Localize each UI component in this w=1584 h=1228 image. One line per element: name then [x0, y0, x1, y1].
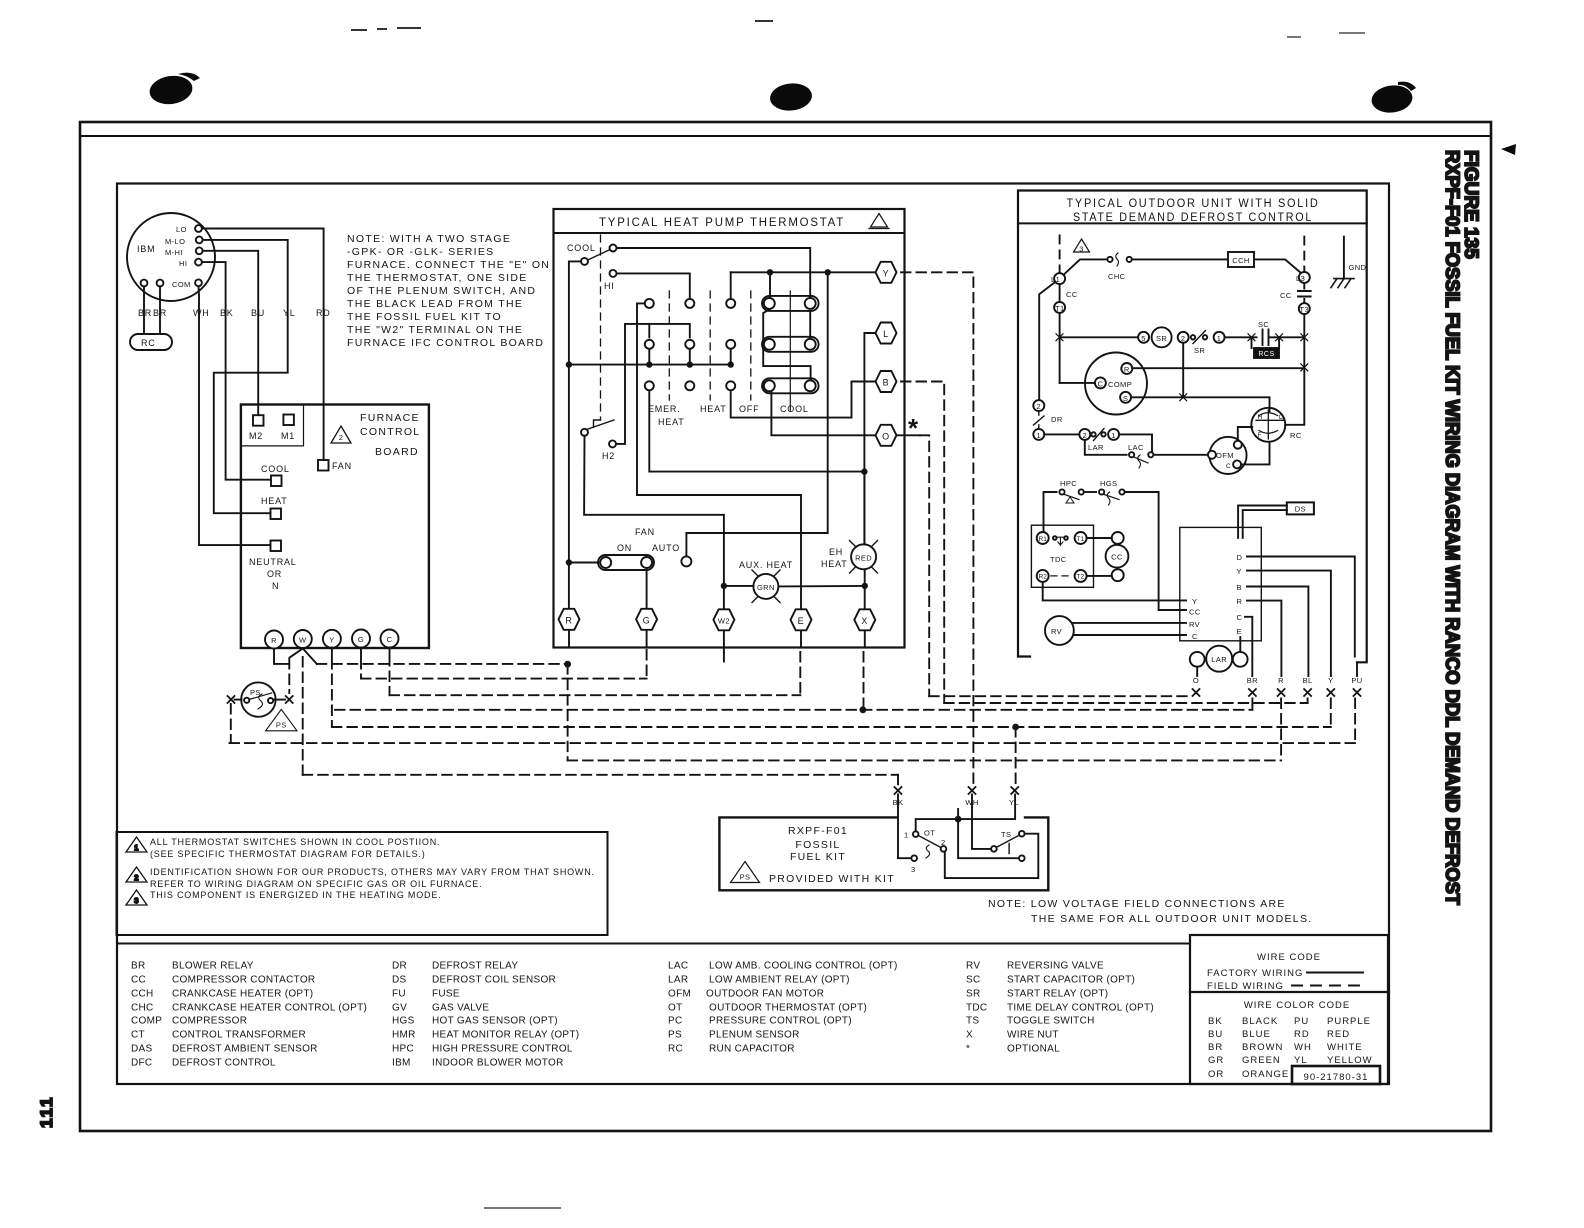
svg-text:BR: BR — [153, 308, 167, 318]
wire YL drop — [1015, 727, 1017, 785]
wire nut X YL — [1011, 787, 1018, 794]
wire rail to fan oval — [569, 562, 600, 564]
wire B hex exit — [901, 382, 944, 704]
switch TS arm — [997, 835, 1020, 847]
svg-text:1: 1 — [1217, 334, 1222, 343]
svg-text:2: 2 — [134, 873, 139, 882]
svg-text:GND: GND — [1349, 263, 1367, 272]
wire E hex drop — [799, 652, 801, 695]
wire nut X R — [1278, 689, 1285, 696]
svg-text:FIELD WIRING: FIELD WIRING — [1207, 981, 1284, 992]
wire B to blue — [1247, 587, 1308, 677]
svg-text:DEFROST COIL SENSOR: DEFROST COIL SENSOR — [432, 975, 556, 986]
svg-text:RCS: RCS — [1258, 351, 1274, 358]
svg-text:CC: CC — [1189, 608, 1201, 617]
svg-text:L3: L3 — [1296, 274, 1305, 283]
wire LAC branch — [1085, 440, 1127, 455]
wire row O — [929, 695, 1191, 697]
wire COOL to left rail — [569, 261, 581, 364]
junction dot L riser — [861, 468, 867, 474]
contact HI — [610, 270, 617, 277]
junction x S line — [1180, 394, 1187, 401]
junction x T3 main — [1301, 334, 1308, 341]
svg-text:HEAT: HEAT — [261, 496, 288, 506]
wire PS left stub — [235, 699, 242, 701]
wire W branch to PS — [288, 659, 290, 693]
lamp RED eh heat — [850, 541, 878, 574]
mode link dashed 2 — [709, 291, 711, 400]
svg-text:COOL: COOL — [261, 464, 290, 474]
svg-text:COMPRESSOR CONTACTOR: COMPRESSOR CONTACTOR — [172, 975, 315, 986]
svg-text:THIS COMPONENT IS ENERGIZED IN: THIS COMPONENT IS ENERGIZED IN THE HEATI… — [150, 890, 441, 900]
wire L hex to riser — [864, 333, 875, 544]
junction dot w2 grn — [721, 583, 727, 589]
wire LAR to OFM — [1119, 434, 1152, 454]
svg-text:C: C — [1279, 414, 1284, 421]
junction x SC right — [1276, 334, 1283, 341]
thermostat title bar — [554, 232, 905, 234]
svg-text:2: 2 — [1181, 334, 1186, 343]
svg-text:IDENTIFICATION SHOWN FOR OUR P: IDENTIFICATION SHOWN FOR OUR PRODUCTS, O… — [150, 867, 595, 877]
svg-text:PS: PS — [668, 1030, 682, 1041]
svg-text:SR: SR — [966, 989, 981, 1000]
wire O hex exit — [920, 435, 929, 696]
hexagon W2 — [713, 609, 734, 630]
wire row B G — [361, 678, 647, 680]
svg-text:Y: Y — [1328, 676, 1333, 685]
field power dashed L1 — [1059, 235, 1061, 272]
svg-text:WIRE NUT: WIRE NUT — [1007, 1030, 1059, 1041]
wire C board stub — [389, 648, 391, 696]
svg-text:YL: YL — [1009, 798, 1019, 807]
slider oval row3 — [762, 378, 819, 393]
svg-text:BL: BL — [1303, 676, 1313, 685]
run capacitor RC outdoor — [1251, 408, 1285, 442]
wire M-HI to BU drop — [203, 251, 259, 415]
note triangle 3 — [126, 890, 147, 905]
terminal COOL — [271, 476, 282, 487]
svg-text:HI: HI — [604, 281, 615, 291]
svg-text:HEAT: HEAT — [658, 417, 685, 427]
terminal DR 1 — [1033, 429, 1044, 440]
note triangle 1 — [126, 837, 147, 852]
svg-text:OFM: OFM — [668, 989, 691, 1000]
OT spring — [926, 845, 930, 858]
wire LO to RD drop — [202, 229, 324, 461]
svg-text:SR: SR — [1194, 346, 1205, 355]
svg-text:THE BLACK LEAD FROM THE: THE BLACK LEAD FROM THE — [347, 298, 523, 310]
svg-text:WIRE COLOR CODE: WIRE COLOR CODE — [1244, 1000, 1350, 1011]
wire PS left drop — [230, 704, 232, 743]
reversing valve RV — [1045, 616, 1074, 645]
node Y-line — [731, 271, 876, 273]
mechanical link dashed H1 — [600, 235, 602, 420]
contact heat row2 — [685, 340, 694, 349]
svg-text:1: 1 — [904, 831, 909, 840]
terminal 1 — [1214, 332, 1225, 343]
svg-text:FIGURE 135: FIGURE 135 — [1460, 150, 1481, 259]
svg-text:START CAPACITOR (OPT): START CAPACITOR (OPT) — [1007, 975, 1135, 986]
junction dot row A — [564, 661, 571, 668]
wire R board corner — [274, 649, 283, 664]
hexagon O — [876, 425, 897, 446]
IBM terminal LO — [195, 225, 202, 232]
svg-text:E: E — [1237, 627, 1242, 636]
svg-text:T2: T2 — [1077, 574, 1085, 581]
contact TS pivot — [991, 846, 997, 852]
wire red lamp riser — [863, 472, 865, 609]
svg-text:REFER TO WIRING DIAGRAM ON SPE: REFER TO WIRING DIAGRAM ON SPECIFIC GAS … — [150, 879, 482, 889]
terminal NEUTRAL — [271, 541, 282, 552]
wire BR nut drop — [1251, 699, 1253, 710]
wire PS right stub — [274, 699, 286, 701]
wire OT pin1 to YL — [916, 795, 1015, 832]
terminal L1 — [1054, 273, 1065, 284]
svg-text:CHC: CHC — [131, 1003, 154, 1014]
svg-text:2: 2 — [339, 433, 344, 442]
svg-text:OFF: OFF — [739, 404, 759, 414]
svg-text:RED: RED — [1327, 1029, 1350, 1040]
wire Y nut drop — [1330, 699, 1332, 728]
svg-text:COMPRESSOR: COMPRESSOR — [172, 1016, 247, 1027]
svg-text:LOW AMBIENT RELAY (OPT): LOW AMBIENT RELAY (OPT) — [709, 975, 850, 986]
switch OT arm — [918, 836, 941, 848]
wire W split left branch — [290, 649, 303, 658]
COOL moving contact — [581, 258, 588, 265]
svg-text:TYPICAL HEAT PUMP THERMOSTAT: TYPICAL HEAT PUMP THERMOSTAT — [599, 217, 845, 229]
terminal G — [352, 630, 370, 648]
legend column 3 — [668, 961, 898, 1055]
svg-text:CHC: CHC — [1108, 272, 1126, 281]
svg-text:GR: GR — [1208, 1055, 1224, 1066]
hexagon B — [876, 371, 897, 392]
svg-text:CC: CC — [1066, 290, 1078, 299]
svg-text:T3: T3 — [1300, 305, 1310, 314]
svg-text:DR: DR — [1051, 415, 1063, 424]
svg-text:R: R — [271, 636, 277, 645]
wire RV to board RV — [1073, 622, 1186, 624]
svg-text:R: R — [1278, 676, 1284, 685]
svg-text:CCH: CCH — [1232, 256, 1249, 265]
contact OT pin 1 — [913, 831, 919, 837]
svg-text:EH: EH — [829, 547, 843, 557]
svg-text:LAC: LAC — [668, 961, 688, 972]
TS toggle tick — [1008, 844, 1010, 854]
wire row R — [568, 759, 1282, 761]
hexagon E — [791, 609, 812, 630]
svg-text:(SEE SPECIFIC THERMOSTAT DIAGR: (SEE SPECIFIC THERMOSTAT DIAGRAM FOR DET… — [150, 849, 426, 859]
left rail lower — [568, 365, 570, 609]
wire LAC to OFM — [1153, 454, 1207, 456]
svg-text:B: B — [883, 378, 890, 388]
wire nut X at PS left — [228, 696, 235, 703]
svg-text:90-21780-31: 90-21780-31 — [1304, 1072, 1369, 1083]
contact SR — [1191, 335, 1195, 339]
svg-text:*: * — [908, 413, 919, 443]
svg-text:RUN CAPACITOR: RUN CAPACITOR — [709, 1044, 795, 1055]
svg-text:TS: TS — [966, 1016, 979, 1027]
svg-text:C: C — [1097, 379, 1103, 388]
svg-text:PU: PU — [1294, 1016, 1309, 1027]
wire LAR to O — [1196, 667, 1198, 676]
IBM terminal M-LO — [196, 237, 203, 244]
wire emer row3 to L node — [649, 390, 864, 471]
terminal HEAT — [271, 509, 282, 520]
stub off row2 bottom — [730, 349, 732, 365]
thermostat box — [554, 209, 905, 648]
svg-text:COM: COM — [172, 280, 191, 289]
svg-text:SC: SC — [966, 975, 981, 986]
junction dot rail/bus — [566, 361, 572, 367]
contact DR — [1034, 411, 1045, 429]
wire BR2 to RC — [159, 286, 161, 334]
svg-text:D: D — [1237, 553, 1243, 562]
svg-text:W2: W2 — [718, 616, 730, 625]
svg-text:NEUTRAL: NEUTRAL — [249, 557, 297, 567]
wire row D — [335, 709, 1252, 711]
contact CHC — [1107, 257, 1112, 262]
svg-text:HMR: HMR — [392, 1030, 416, 1041]
svg-text:HEAT MONITOR RELAY (OPT): HEAT MONITOR RELAY (OPT) — [432, 1030, 579, 1041]
svg-text:Y: Y — [1237, 567, 1242, 576]
svg-text:WH: WH — [1294, 1042, 1312, 1053]
svg-text:BU: BU — [1208, 1029, 1223, 1040]
svg-text:G: G — [643, 615, 651, 625]
wire TS to OT pin2 loop — [945, 834, 1039, 878]
svg-text:R2: R2 — [1039, 574, 1048, 581]
wire RV to board C — [1074, 634, 1186, 636]
hole punch top-left — [148, 73, 200, 107]
svg-text:RC: RC — [668, 1044, 683, 1055]
legend column 2 — [392, 961, 579, 1069]
svg-text:LAR: LAR — [668, 975, 688, 986]
svg-text:BOARD: BOARD — [375, 446, 419, 458]
H2 fixed contact — [609, 440, 616, 447]
figure title arrow — [1501, 144, 1516, 155]
svg-text:HPC: HPC — [1060, 479, 1077, 488]
svg-text:GV: GV — [392, 1003, 407, 1014]
crankcase heater CCH — [1228, 252, 1254, 267]
inner page frame line — [82, 135, 1489, 137]
svg-text:CC: CC — [1111, 553, 1123, 562]
mode link dashed 3 — [750, 291, 752, 400]
wire C to brown — [1245, 617, 1252, 676]
wire grn line — [724, 585, 865, 588]
switch H2 — [581, 429, 588, 436]
start capacitor SC — [1263, 330, 1275, 346]
legend column 4 — [966, 961, 1154, 1055]
wire CCH to L3 — [1254, 259, 1301, 273]
svg-text:N: N — [272, 581, 279, 591]
svg-text:1: 1 — [1037, 431, 1042, 440]
part number box 90-21780-31 — [1292, 1066, 1380, 1084]
svg-text:SC: SC — [1258, 320, 1269, 329]
wire dot stub up — [957, 809, 959, 819]
svg-text:H: H — [1258, 414, 1263, 421]
wire W2 riser from H2 pivot — [584, 436, 724, 609]
field wiring dashed buses — [230, 272, 1356, 786]
svg-text:ON: ON — [617, 543, 632, 553]
thermostat note triangle 1 — [871, 214, 888, 228]
IBM terminal BR1 — [141, 280, 148, 287]
contact emer row3 — [645, 381, 654, 390]
svg-text:B: B — [1237, 583, 1242, 592]
IBM terminal COM — [195, 279, 202, 286]
wire W riser — [302, 657, 304, 775]
svg-text:M-HI: M-HI — [165, 248, 183, 257]
svg-text:YELLOW: YELLOW — [1327, 1055, 1373, 1066]
svg-text:T1: T1 — [1077, 536, 1085, 543]
svg-text:RD: RD — [1294, 1029, 1310, 1040]
svg-text:3: 3 — [911, 865, 916, 874]
notes box — [117, 832, 608, 935]
wire nut X PU — [1354, 689, 1361, 696]
factory wiring sample line — [1307, 972, 1363, 974]
svg-text:WHITE: WHITE — [1327, 1042, 1363, 1053]
mode link dashed 1 — [668, 291, 670, 400]
wire R2 to board Y — [1043, 582, 1186, 601]
junction x T1 — [1056, 334, 1063, 341]
svg-text:LOW AMB. COOLING CONTROL (OPT): LOW AMB. COOLING CONTROL (OPT) — [709, 961, 898, 972]
note: low voltage field connections — [988, 898, 1312, 925]
wire nut X BL — [1304, 689, 1311, 696]
low ambient relay LAR outdoor — [1190, 646, 1248, 672]
svg-text:O: O — [1193, 676, 1199, 685]
junction dot x grn — [862, 583, 868, 589]
junction dot row Y YL — [1012, 724, 1019, 731]
svg-text:FAN: FAN — [332, 461, 352, 471]
furnace board M-terminal sub-panel — [241, 405, 304, 446]
svg-text:FOSSIL: FOSSIL — [795, 839, 840, 851]
svg-text:X: X — [966, 1030, 973, 1041]
contact emer row2 — [645, 340, 654, 349]
svg-text:CONTROL TRANSFORMER: CONTROL TRANSFORMER — [172, 1030, 306, 1041]
svg-text:OPTIONAL: OPTIONAL — [1007, 1044, 1060, 1055]
wire emer row1 to E riser — [637, 303, 801, 608]
terminal M1 — [283, 415, 294, 426]
svg-text:BR: BR — [131, 961, 146, 972]
contact TS lower — [1019, 855, 1025, 861]
outdoor fan motor OFM — [1208, 437, 1247, 474]
contact TS fixed — [1019, 831, 1025, 837]
contact LAR — [1091, 432, 1095, 436]
wire D to PU — [1247, 557, 1355, 657]
terminal T3 — [1299, 303, 1310, 314]
svg-text:HI: HI — [179, 259, 187, 268]
junction dot kit — [955, 816, 962, 823]
contact off row1 — [726, 299, 735, 308]
slider oval row2 — [762, 337, 819, 352]
wire HPC to HGS — [1084, 491, 1096, 493]
wire Y to yellow — [1247, 571, 1331, 676]
wire Y hex exit — [901, 272, 973, 786]
svg-text:2: 2 — [941, 838, 946, 847]
svg-text:GREEN: GREEN — [1242, 1055, 1281, 1066]
wire oval jog to oval3 right — [763, 309, 810, 380]
wire fan oval to G — [646, 570, 648, 609]
note triangle PS provided — [266, 709, 297, 730]
svg-text:CONTROL: CONTROL — [360, 426, 420, 438]
low ambient relay LAR terminal 1 — [1108, 429, 1119, 440]
svg-text:YL: YL — [283, 308, 296, 318]
svg-text:BK: BK — [220, 308, 234, 318]
stub emer row2 top — [648, 324, 650, 338]
outdoor unit box — [1018, 191, 1367, 663]
svg-text:DR: DR — [392, 961, 407, 972]
fan slider oval — [598, 555, 654, 570]
wire oval1 chain — [809, 311, 811, 338]
contact LAC — [1129, 452, 1134, 457]
svg-text:CT: CT — [131, 1030, 145, 1041]
svg-text:BLOWER RELAY: BLOWER RELAY — [172, 961, 254, 972]
svg-text:ALL THERMOSTAT SWITCHES SHOWN: ALL THERMOSTAT SWITCHES SHOWN IN COOL PO… — [150, 837, 440, 847]
run capacitor RC — [130, 334, 172, 350]
IBM terminal BR2 — [157, 280, 164, 287]
wire nut X BK — [895, 787, 902, 794]
wire Y board drop — [331, 648, 333, 728]
wire R hex drop — [567, 664, 569, 760]
stub OFF row1 — [730, 272, 732, 299]
scan marks top — [352, 21, 1364, 1208]
contact fan auto — [681, 556, 691, 566]
wire 2 to S line — [1182, 343, 1184, 398]
svg-text:3: 3 — [1079, 245, 1084, 254]
svg-text:TDC: TDC — [1050, 555, 1067, 564]
svg-text:DS: DS — [1295, 505, 1306, 514]
svg-text:M-LO: M-LO — [165, 237, 185, 246]
junction dot bus heat — [687, 361, 693, 367]
wire COMP C to T1 riser — [1060, 382, 1095, 384]
svg-text:PC: PC — [668, 1016, 683, 1027]
hexagon R — [559, 609, 580, 630]
svg-text:PS: PS — [276, 721, 287, 730]
svg-text:BLUE: BLUE — [1242, 1029, 1271, 1040]
svg-text:HPC: HPC — [392, 1044, 414, 1055]
contact OT pin 2 — [941, 846, 947, 852]
svg-text:TYPICAL OUTDOOR UNIT WITH SOLI: TYPICAL OUTDOOR UNIT WITH SOLID — [1067, 198, 1320, 210]
svg-text:PU: PU — [1351, 676, 1362, 685]
svg-text:START RELAY (OPT): START RELAY (OPT) — [1007, 989, 1108, 1000]
hexagon bottom stubs — [569, 630, 865, 652]
svg-text:BLACK: BLACK — [1242, 1016, 1278, 1027]
wire CHC to CCH — [1132, 258, 1228, 260]
IBM terminal M-HI — [196, 247, 203, 254]
junction dot Y/oval1 — [767, 269, 773, 275]
note triangle PS kit — [731, 862, 760, 883]
svg-text:NOTE: LOW VOLTAGE FIELD CONNEC: NOTE: LOW VOLTAGE FIELD CONNECTIONS ARE — [988, 898, 1286, 910]
svg-text:BR: BR — [138, 308, 152, 318]
svg-text:OF THE PLENUM SWITCH, AND: OF THE PLENUM SWITCH, AND — [347, 285, 536, 297]
svg-text:COMP: COMP — [1108, 380, 1132, 389]
svg-text:FUEL KIT: FUEL KIT — [790, 851, 846, 863]
wire nut X WH — [969, 787, 976, 794]
svg-text:PURPLE: PURPLE — [1327, 1016, 1371, 1027]
junction dot Y/auto — [825, 269, 831, 275]
svg-text:RXPF-F01: RXPF-F01 — [788, 825, 848, 837]
contact emer row1 — [645, 299, 654, 308]
legend column 1 — [131, 961, 367, 1069]
stub oval1 left — [769, 272, 771, 298]
svg-text:CCH: CCH — [131, 989, 154, 1000]
svg-text:OR: OR — [1208, 1069, 1224, 1080]
svg-text:PLENUM SENSOR: PLENUM SENSOR — [709, 1030, 800, 1041]
svg-text:OT: OT — [668, 1003, 683, 1014]
svg-text:RC: RC — [1290, 431, 1302, 440]
wire nut X Y — [1327, 689, 1334, 696]
svg-text:WH: WH — [193, 308, 210, 318]
wire COMP S line — [1131, 397, 1269, 412]
svg-text:E: E — [798, 616, 805, 626]
